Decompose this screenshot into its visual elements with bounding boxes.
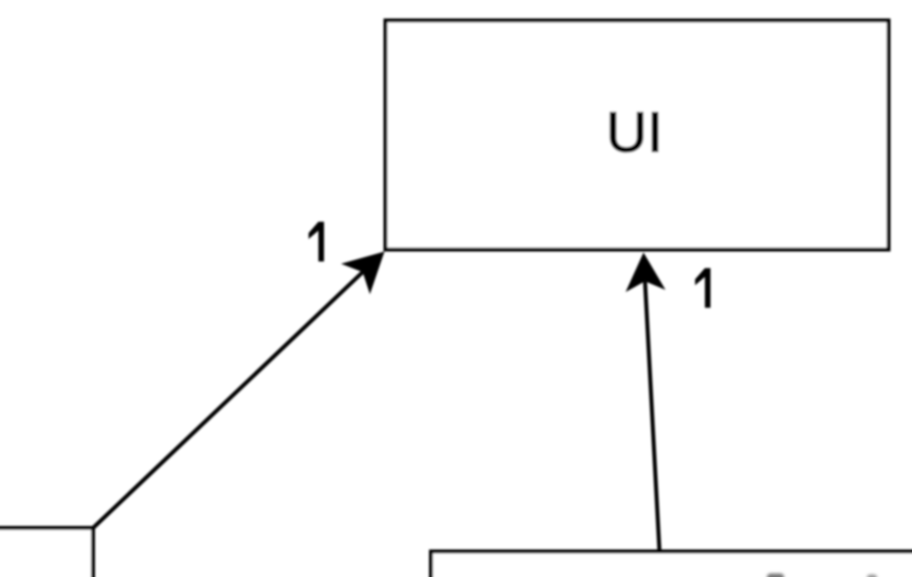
svg-text:UI: UI <box>606 101 663 165</box>
